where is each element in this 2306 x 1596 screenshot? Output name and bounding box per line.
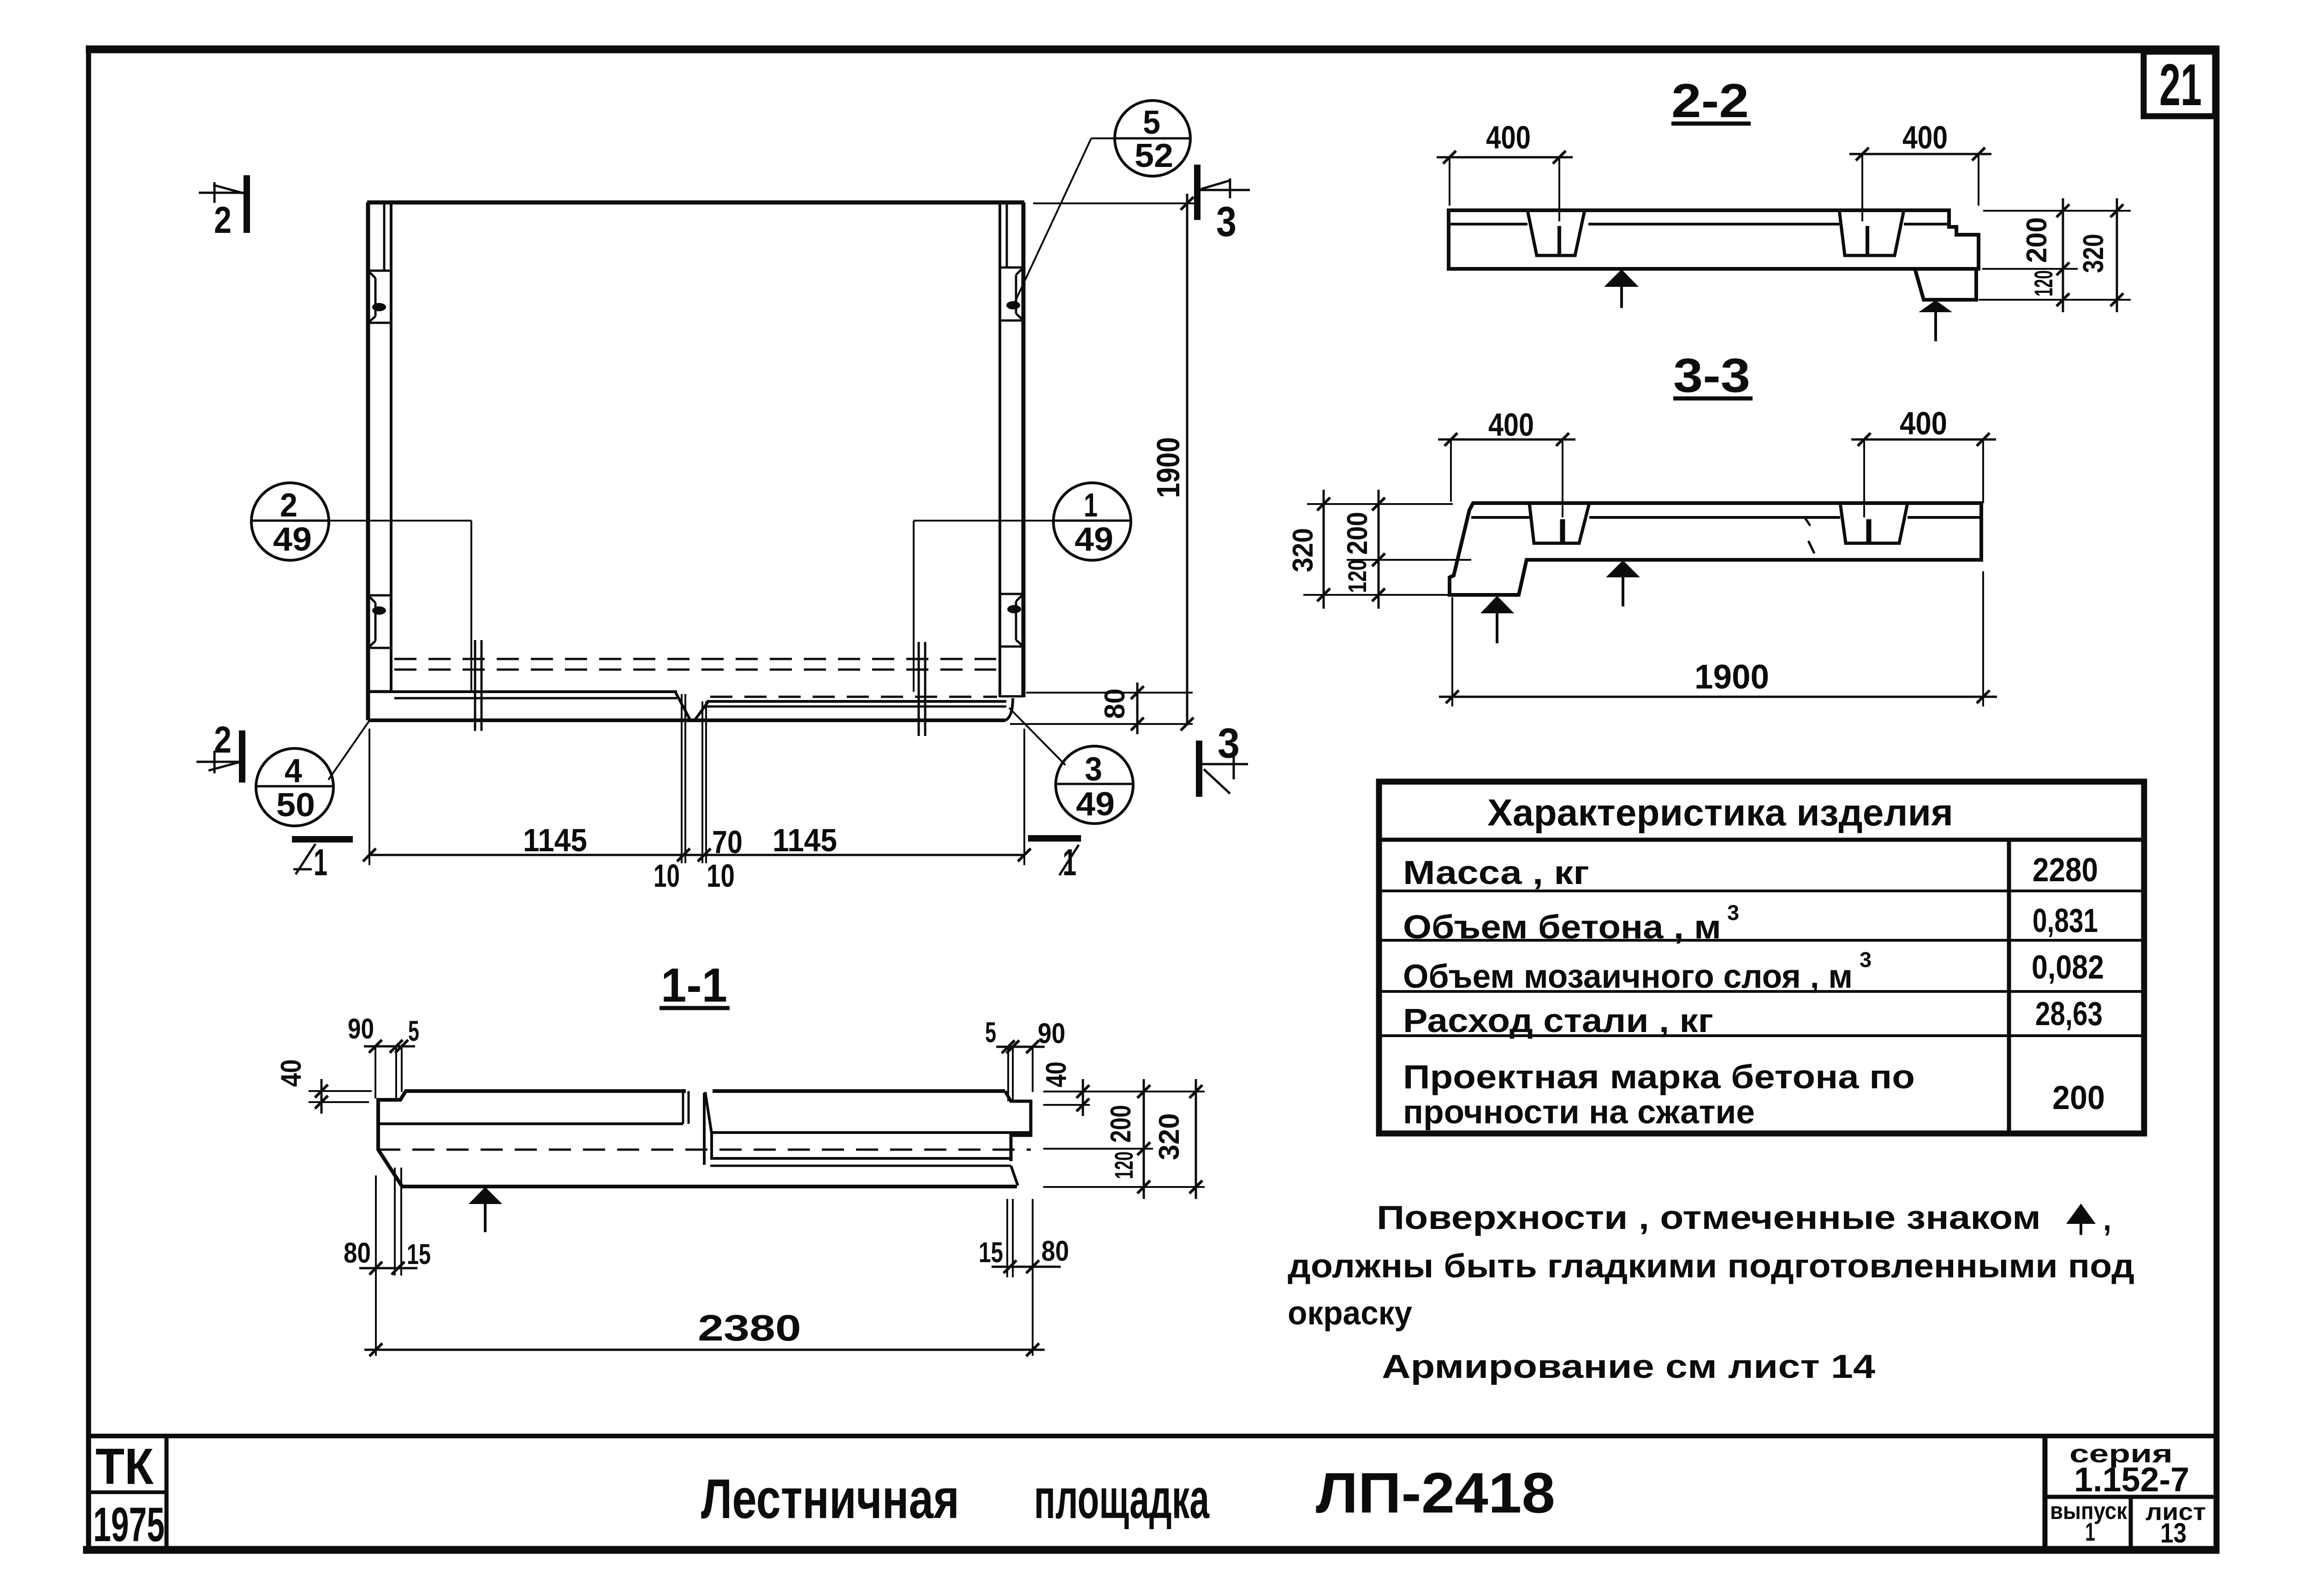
svg-text:ТК: ТК bbox=[95, 1438, 154, 1495]
dim 40 top right 1-1 bbox=[1040, 1062, 1205, 1116]
svg-text:1145: 1145 bbox=[773, 822, 837, 858]
svg-text:70: 70 bbox=[712, 824, 743, 860]
svg-text:3: 3 bbox=[1216, 198, 1236, 245]
svg-text:5: 5 bbox=[985, 1017, 996, 1049]
svg-text:Армирование см лист 14: Армирование см лист 14 bbox=[1382, 1348, 1875, 1385]
svg-text:окраску: окраску bbox=[1288, 1295, 1412, 1332]
svg-text:площадка: площадка bbox=[1034, 1467, 1210, 1530]
right wall extra top line bbox=[1006, 203, 1008, 267]
svg-text:320: 320 bbox=[1153, 1113, 1185, 1160]
TITLE BLOCK bbox=[89, 1436, 2217, 1552]
dimension 400 right 3-3 bbox=[1851, 405, 1996, 517]
far half slab outline 1-1 bbox=[703, 1093, 706, 1165]
detail circle 2/49 bbox=[251, 483, 471, 692]
svg-text:Расход стали , кг: Расход стали , кг bbox=[1403, 1003, 1713, 1039]
svg-text:40: 40 bbox=[275, 1059, 307, 1087]
plan right dimension 1900 bbox=[1033, 194, 1195, 730]
break squiggle 3-3 bbox=[1805, 517, 1810, 526]
left wall upper notch bbox=[368, 271, 391, 323]
svg-text:90: 90 bbox=[348, 1013, 374, 1045]
dimension 400 left 2-2 bbox=[1437, 119, 1573, 221]
bottom strip near edge right half bbox=[707, 700, 1006, 703]
far half mosaic line 1-1 bbox=[712, 1131, 1031, 1134]
svg-text:1145: 1145 bbox=[523, 822, 587, 858]
svg-text:0,082: 0,082 bbox=[2032, 949, 2104, 986]
detail circle 5/52 with leader bbox=[1015, 101, 1190, 303]
svg-text:2: 2 bbox=[214, 719, 232, 761]
dims 90 and 5 top left 1-1 bbox=[348, 1013, 419, 1102]
thickness dims left of 3-3 bbox=[1287, 490, 1471, 609]
bottom strip near edge left half bbox=[368, 690, 677, 693]
svg-text:1.152-7: 1.152-7 bbox=[2074, 1460, 2189, 1499]
dimension 400 right 2-2 bbox=[1849, 119, 1991, 221]
svg-text:120: 120 bbox=[2029, 270, 2058, 297]
CHARACTERISTICS TABLE bbox=[1379, 782, 2144, 1133]
svg-text:Характеристика изделия: Характеристика изделия bbox=[1487, 792, 1953, 834]
svg-text:0,831: 0,831 bbox=[2033, 902, 2098, 939]
break tick pair left bbox=[474, 640, 476, 731]
svg-text:2-2: 2-2 bbox=[1671, 74, 1749, 128]
svg-text:200: 200 bbox=[2021, 217, 2053, 263]
svg-text:49: 49 bbox=[1076, 786, 1115, 823]
svg-text:Объем бетона , м: Объем бетона , м bbox=[1403, 909, 1721, 946]
svg-text:49: 49 bbox=[1075, 521, 1113, 558]
svg-text:Объем мозаичного слоя , м: Объем мозаичного слоя , м bbox=[1403, 958, 1853, 995]
detail circle 1/49 bbox=[914, 483, 1131, 692]
svg-text:2: 2 bbox=[214, 199, 232, 241]
SECTION 2-2 bbox=[1437, 74, 2131, 341]
mosaic layer line 2-2 bbox=[1449, 223, 1527, 225]
svg-text:4: 4 bbox=[285, 753, 302, 789]
bottom strip lower edge bbox=[368, 718, 1005, 722]
svg-text:Проектная марка бетона по: Проектная марка бетона по bbox=[1403, 1059, 1915, 1096]
section mark 1 bottom-right of dim bbox=[1028, 835, 1081, 884]
svg-text:320: 320 bbox=[1287, 528, 1319, 572]
svg-text:120: 120 bbox=[1109, 1151, 1138, 1179]
support arrow 1-1 bbox=[469, 1187, 502, 1204]
svg-text:Поверхности , отмеченные знако: Поверхности , отмеченные знаком bbox=[1377, 1199, 2041, 1236]
hidden dashed line 1-1 bbox=[378, 1149, 1031, 1151]
svg-text:3: 3 bbox=[1218, 720, 1240, 767]
support arrow left 3-3 bbox=[1480, 596, 1514, 613]
svg-text:400: 400 bbox=[1486, 119, 1531, 155]
svg-text:52: 52 bbox=[1135, 137, 1173, 174]
svg-text:1: 1 bbox=[2085, 1517, 2095, 1546]
svg-text:прочности на сжатие: прочности на сжатие bbox=[1403, 1094, 1755, 1131]
dimension 400 left 3-3 bbox=[1438, 407, 1575, 517]
dim 40 top left 1-1 bbox=[275, 1059, 372, 1114]
svg-text:3: 3 bbox=[1085, 751, 1102, 788]
dims 5 and 90 top right 1-1 bbox=[985, 1017, 1065, 1101]
svg-text:1: 1 bbox=[1084, 487, 1098, 524]
svg-text:,: , bbox=[2103, 1201, 2111, 1238]
slab top edge bbox=[367, 201, 1024, 205]
svg-text:1: 1 bbox=[314, 842, 327, 884]
dimension 1900 3-3 bbox=[1439, 571, 1997, 706]
svg-text:200: 200 bbox=[2052, 1080, 2105, 1116]
NOTES bbox=[1288, 1199, 2134, 1385]
support arrow middle 3-3 bbox=[1606, 560, 1640, 577]
surface mark symbol bbox=[2066, 1204, 2096, 1224]
svg-text:40: 40 bbox=[1040, 1062, 1072, 1087]
dims 15 and 80 bottom right 1-1 bbox=[979, 1199, 1069, 1356]
svg-text:120: 120 bbox=[1343, 559, 1372, 593]
svg-text:13: 13 bbox=[2160, 1518, 2187, 1549]
section mark 2 bottom left bbox=[196, 719, 245, 783]
left rib trough 3-3 bbox=[1529, 503, 1589, 543]
dimension 2380 1-1 bbox=[364, 1307, 1045, 1356]
section mark 1 bottom-left of dim bbox=[292, 836, 353, 884]
left wall extra top line bbox=[383, 203, 386, 271]
far half bottom ledge 1-1 bbox=[710, 1157, 1011, 1160]
hidden dashed edges bbox=[394, 658, 996, 660]
svg-text:400: 400 bbox=[1902, 119, 1948, 155]
sheet number box 21 bbox=[2144, 52, 2215, 118]
svg-text:должны быть гладкими подготовл: должны быть гладкими подготовленными под bbox=[1288, 1248, 2134, 1285]
far half heel 1-1 bbox=[1011, 1166, 1018, 1186]
svg-text:ЛП-2418: ЛП-2418 bbox=[1316, 1461, 1555, 1525]
thickness dims right of 2-2 bbox=[1979, 198, 2131, 312]
right wall upper notch bbox=[1000, 267, 1023, 320]
SECTION 3-3 bbox=[1287, 349, 1997, 706]
svg-text:320: 320 bbox=[2078, 234, 2110, 273]
left wall outer edge bbox=[366, 202, 370, 720]
svg-text:80: 80 bbox=[1099, 688, 1131, 719]
section mark 3 top right bbox=[1194, 165, 1250, 245]
PLAN VIEW of landing slab bbox=[196, 101, 1250, 894]
mosaic layer line 3-3 bbox=[1471, 516, 1529, 519]
svg-text:80: 80 bbox=[344, 1237, 371, 1269]
plan bottom dimension 1145+70+1145 bbox=[363, 694, 1031, 894]
SECTION 1-1 bbox=[275, 959, 1205, 1356]
svg-text:2380: 2380 bbox=[698, 1307, 801, 1348]
section mark 2 top left bbox=[199, 175, 250, 241]
joint gap lines 1-1 bbox=[682, 1091, 684, 1124]
svg-text:5: 5 bbox=[1143, 104, 1160, 141]
svg-text:21: 21 bbox=[2159, 52, 2202, 118]
left wall lower notch bbox=[368, 595, 391, 691]
svg-text:1975: 1975 bbox=[93, 1498, 165, 1552]
svg-text:200: 200 bbox=[1105, 1105, 1137, 1143]
svg-text:3: 3 bbox=[1727, 901, 1739, 925]
bearing heel 2-2 bbox=[1915, 269, 1976, 300]
slab outline 2-2 bbox=[1449, 210, 1979, 269]
svg-text:1900: 1900 bbox=[1694, 658, 1769, 696]
right wall inner edge bbox=[998, 202, 1001, 697]
right wall lower notch bbox=[1000, 594, 1023, 696]
svg-text:400: 400 bbox=[1488, 407, 1534, 443]
svg-text:3: 3 bbox=[1860, 948, 1872, 972]
svg-text:49: 49 bbox=[273, 521, 312, 558]
slab outline 3-3 bbox=[1450, 503, 1981, 595]
svg-text:2: 2 bbox=[280, 487, 297, 524]
svg-text:50: 50 bbox=[276, 787, 315, 824]
strip right end bbox=[1005, 698, 1013, 720]
break tick pair right bbox=[918, 642, 920, 736]
section mark 3 bottom right bbox=[1196, 720, 1248, 797]
svg-text:80: 80 bbox=[1041, 1235, 1069, 1267]
svg-text:1900: 1900 bbox=[1150, 437, 1186, 498]
left rib trough 2-2 bbox=[1527, 210, 1585, 255]
right rib trough 3-3 bbox=[1840, 503, 1908, 543]
right wall outer edge bbox=[1022, 202, 1026, 697]
svg-text:15: 15 bbox=[407, 1239, 431, 1270]
svg-text:28,63: 28,63 bbox=[2035, 996, 2103, 1032]
svg-text:10: 10 bbox=[654, 858, 680, 894]
svg-text:5: 5 bbox=[408, 1015, 419, 1047]
support arrow right 2-2 bbox=[1919, 300, 1952, 312]
svg-text:1: 1 bbox=[1063, 842, 1076, 884]
detail circle 4/50 with leader bbox=[256, 721, 369, 826]
dims 80 and 15 bottom left 1-1 bbox=[344, 1168, 431, 1356]
svg-text:200: 200 bbox=[1342, 512, 1373, 555]
svg-text:15: 15 bbox=[979, 1237, 1003, 1269]
svg-text:2280: 2280 bbox=[2033, 852, 2098, 889]
plan dimension 80 bbox=[1010, 682, 1193, 734]
left wall inner edge bbox=[390, 202, 392, 692]
svg-text:Масса , кг: Масса , кг bbox=[1403, 854, 1589, 891]
support arrow left 2-2 bbox=[1604, 269, 1639, 287]
svg-text:90: 90 bbox=[1038, 1018, 1065, 1050]
near half mosaic line 1-1 bbox=[378, 1122, 683, 1125]
near half slab outline 1-1 bbox=[378, 1091, 1017, 1187]
thickness dims right of 1-1 bbox=[1043, 1079, 1205, 1199]
svg-text:10: 10 bbox=[707, 858, 735, 894]
V joint notch bbox=[675, 692, 690, 720]
svg-text:1-1: 1-1 bbox=[661, 959, 727, 1012]
svg-text:Лестничная: Лестничная bbox=[701, 1467, 959, 1530]
svg-text:400: 400 bbox=[1900, 405, 1947, 441]
svg-text:3-3: 3-3 bbox=[1673, 349, 1750, 403]
right rib trough 2-2 bbox=[1839, 210, 1904, 255]
detail circle 3/49 with leader bbox=[1009, 708, 1133, 824]
